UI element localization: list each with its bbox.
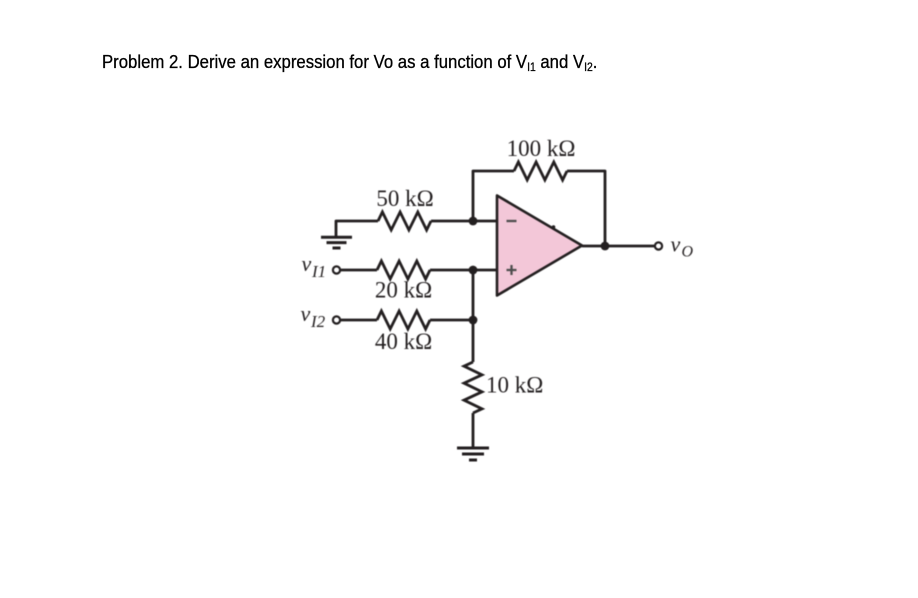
svg-text:v: v bbox=[302, 251, 312, 276]
svg-text:O: O bbox=[682, 244, 694, 261]
svg-text:100 kΩ: 100 kΩ bbox=[507, 136, 576, 161]
svg-text:v: v bbox=[301, 301, 311, 326]
svg-text:I1: I1 bbox=[311, 262, 326, 281]
svg-text:20 kΩ: 20 kΩ bbox=[375, 278, 432, 303]
svg-text:v: v bbox=[671, 232, 681, 257]
svg-text:50 kΩ: 50 kΩ bbox=[376, 186, 433, 211]
svg-text:I2: I2 bbox=[310, 312, 326, 331]
svg-text:10 kΩ: 10 kΩ bbox=[486, 373, 543, 398]
svg-text:40 kΩ: 40 kΩ bbox=[375, 329, 432, 354]
